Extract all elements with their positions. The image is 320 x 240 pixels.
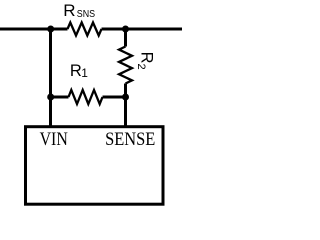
svg-text:1: 1 bbox=[81, 66, 88, 80]
svg-text:R2: R2 bbox=[135, 52, 156, 70]
IC box bbox=[26, 127, 164, 205]
svg-text:R: R bbox=[63, 1, 75, 20]
resistor R1 bbox=[69, 90, 103, 104]
wire R2 top lead bbox=[124, 29, 127, 47]
node junction dot top-right bbox=[122, 26, 129, 33]
node junction dot top-left bbox=[47, 26, 54, 33]
svg-text:R: R bbox=[70, 62, 82, 80]
wire R1 right lead bbox=[103, 96, 126, 99]
svg-text:SNS: SNS bbox=[77, 9, 96, 20]
wire R2 bottom lead down to SENSE pin bbox=[124, 84, 127, 128]
wire left vertical (top node down to VIN pin) bbox=[49, 29, 52, 128]
node junction dot R1 right / R2 bottom bbox=[122, 94, 129, 101]
svg-text:VIN: VIN bbox=[40, 129, 68, 150]
wire R1 left lead bbox=[51, 96, 69, 99]
resistor RSNS bbox=[68, 23, 102, 36]
wire top rail left segment bbox=[0, 28, 68, 31]
svg-text:SENSE: SENSE bbox=[105, 129, 155, 150]
node junction dot R1 left bbox=[47, 94, 54, 101]
wire top rail right segment bbox=[102, 28, 183, 31]
resistor R2 bbox=[119, 47, 132, 84]
